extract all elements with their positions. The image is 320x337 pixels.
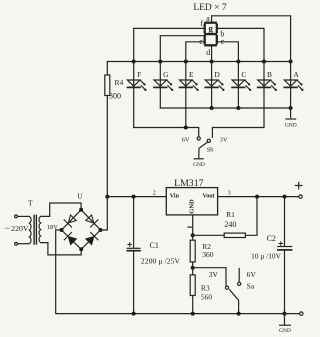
wire segment f to LED F column xyxy=(134,28,204,61)
svg-text:d: d xyxy=(206,48,210,57)
junction dot R1 top xyxy=(255,195,259,199)
svg-text:G: G xyxy=(163,70,169,79)
svg-text:R3: R3 xyxy=(201,283,210,292)
svg-text:LM317: LM317 xyxy=(174,178,203,189)
svg-text:D: D xyxy=(214,70,220,79)
wire +rail to LM317 Vin xyxy=(107,196,166,198)
resistor R4 300 xyxy=(106,62,108,76)
svg-text:B: B xyxy=(267,70,272,79)
svg-text:C1: C1 xyxy=(150,241,159,250)
svg-text:C: C xyxy=(241,70,246,79)
junction dot D on cathode bus xyxy=(210,106,214,110)
wire segment c to LED C column xyxy=(218,42,239,62)
svg-text:f: f xyxy=(200,19,203,28)
wire node X to Sa 3V contact xyxy=(193,268,226,286)
wire secondary bottom to bridge bottom xyxy=(41,243,81,255)
switch Sb xyxy=(197,137,210,158)
resistor R1 240 xyxy=(193,197,257,238)
wire LM317 GND pin down xyxy=(192,215,194,235)
svg-text:Vout: Vout xyxy=(203,194,215,200)
wire ground rail xyxy=(56,230,300,314)
bridge diamond wires xyxy=(62,210,101,250)
svg-text:F: F xyxy=(137,70,141,79)
output terminal - xyxy=(300,312,303,315)
diode bottom-right xyxy=(86,233,98,245)
wire bridge right node to +rail xyxy=(101,197,108,230)
svg-text:240: 240 xyxy=(224,220,236,229)
primary terminal bottom xyxy=(15,242,18,245)
wire cathode bus acdg xyxy=(160,107,290,109)
svg-text:3V: 3V xyxy=(220,137,228,144)
ground at LED A xyxy=(285,108,297,129)
svg-text:U: U xyxy=(77,192,83,201)
output terminal + xyxy=(299,195,302,198)
secondary winding xyxy=(39,216,41,242)
junction dot node X xyxy=(191,266,195,270)
wire anode bus xyxy=(107,61,290,63)
LED E xyxy=(180,62,199,128)
svg-text:g: g xyxy=(208,23,213,33)
wire Vout to + output xyxy=(218,196,300,198)
diode top-left xyxy=(64,215,76,227)
regulator LM317 U2 xyxy=(166,178,217,215)
svg-text:a: a xyxy=(206,14,210,23)
junction dot Sa bottom xyxy=(237,312,241,316)
svg-text:3V: 3V xyxy=(209,270,219,279)
svg-text:C2: C2 xyxy=(267,234,276,243)
svg-text:3: 3 xyxy=(228,190,231,196)
junction dot A on cathode bus xyxy=(289,106,293,110)
LED G xyxy=(154,62,173,109)
svg-text:360: 360 xyxy=(202,250,214,259)
capacitor C1 2200u/25V xyxy=(127,197,180,314)
junction dots on anode bus xyxy=(132,60,293,64)
bridge node dots xyxy=(60,208,103,252)
svg-text:2: 2 xyxy=(153,191,156,197)
LED C xyxy=(232,62,251,109)
diode top-right xyxy=(86,215,98,227)
LED A xyxy=(284,62,303,109)
wire segment g to LED G column xyxy=(160,36,203,62)
svg-text:GND: GND xyxy=(188,199,195,214)
core xyxy=(33,215,35,244)
wire ef net to switch 6V contact xyxy=(134,128,199,137)
LED D xyxy=(205,62,224,109)
wire segment e to LED E column xyxy=(186,42,204,62)
wire secondary top to bridge top xyxy=(41,203,81,216)
diode bottom-left xyxy=(64,233,76,245)
junction dot rail/R4 xyxy=(105,195,109,199)
junction dot C2 bottom xyxy=(283,312,287,316)
svg-text:R4: R4 xyxy=(115,78,124,87)
ground at output xyxy=(279,314,291,334)
LED F xyxy=(127,62,146,128)
svg-text:~ 220V: ~ 220V xyxy=(5,224,29,233)
svg-text:Sb: Sb xyxy=(207,147,214,154)
svg-text:GND: GND xyxy=(193,162,205,168)
svg-text:GND: GND xyxy=(279,328,291,334)
resistor R3 560 xyxy=(190,268,212,314)
resistor R2 360 xyxy=(190,235,214,267)
svg-text:560: 560 xyxy=(201,292,213,301)
svg-text:10 μ /10V: 10 μ /10V xyxy=(251,252,281,261)
svg-text:R1: R1 xyxy=(226,210,235,219)
svg-text:LED × 7: LED × 7 xyxy=(193,3,227,13)
svg-text:6V: 6V xyxy=(182,137,190,144)
ground at Sb xyxy=(193,159,205,168)
svg-text:T: T xyxy=(28,199,33,208)
svg-text:A: A xyxy=(293,70,299,79)
wire segment b to LED B column xyxy=(218,28,264,61)
7-segment display DS1 xyxy=(205,23,217,46)
junction dot C1 top xyxy=(132,195,136,199)
junction dot C2 top xyxy=(283,195,287,199)
junction dot C1 bottom xyxy=(132,312,136,316)
svg-text:6V: 6V xyxy=(247,270,257,279)
svg-text:300: 300 xyxy=(109,92,121,101)
junction dot E on ef net xyxy=(184,126,188,130)
LED B xyxy=(258,62,277,128)
junction dot R3 bottom xyxy=(191,312,195,316)
transformer T xyxy=(15,199,42,245)
label + xyxy=(296,182,303,189)
junction dot C on cathode bus xyxy=(236,106,240,110)
svg-text:GND: GND xyxy=(285,123,297,129)
junction dot ADJ node xyxy=(191,233,195,237)
wire b net to switch 3V contact xyxy=(212,128,264,138)
wire segment a to LED A column xyxy=(212,16,291,62)
wire segment d to LED D column xyxy=(211,46,213,61)
capacitor C2 10u/10V xyxy=(251,197,292,314)
primary winding xyxy=(29,216,31,243)
primary terminal top xyxy=(15,215,18,218)
switch Sa xyxy=(225,282,240,313)
svg-text:2200 μ /25V: 2200 μ /25V xyxy=(141,256,181,265)
svg-text:Sa: Sa xyxy=(247,281,255,290)
pin tick mark xyxy=(188,226,191,228)
svg-text:E: E xyxy=(189,70,194,79)
wire Sa 6V stub xyxy=(238,268,240,282)
svg-text:Vin: Vin xyxy=(170,194,180,200)
